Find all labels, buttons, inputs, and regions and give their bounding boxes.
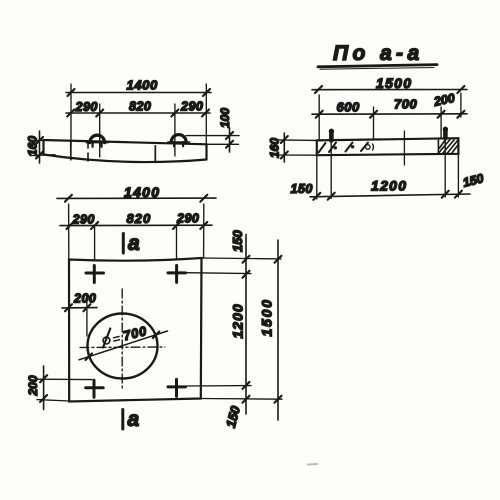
- anchor extension left: [330, 141, 332, 199]
- right leaders plan: [186, 258, 282, 399]
- diameter line tick left: [86, 354, 93, 361]
- lifting loop right: [168, 135, 190, 147]
- dim line 290-820-290 elevation: [66, 110, 210, 117]
- section mark a bottom: [121, 410, 124, 430]
- dim line 150-1200-150 plan: [243, 235, 250, 415]
- svg-text:100: 100: [218, 108, 232, 128]
- slab joint lines elevation: [71, 141, 156, 161]
- svg-text:150: 150: [461, 171, 485, 190]
- dim line 1400 elevation: [66, 89, 211, 96]
- hatch dot 2: [351, 145, 354, 148]
- dim line 1500 plan: [275, 240, 282, 420]
- plate outline plan: [69, 258, 202, 402]
- dim 160 left section: [277, 133, 317, 162]
- svg-text:820: 820: [127, 211, 152, 226]
- svg-text:1200: 1200: [371, 178, 407, 194]
- dim 160 left elevation: [30, 131, 55, 163]
- anchor bar right section: [443, 129, 448, 138]
- svg-text:200: 200: [73, 292, 96, 306]
- svg-text:700: 700: [394, 97, 417, 112]
- section mark a top: [122, 234, 125, 254]
- svg-text:150: 150: [230, 230, 245, 252]
- title underline: [318, 65, 437, 67]
- slab outline elevation: [44, 140, 207, 162]
- anchor bar left section: [329, 131, 334, 141]
- svg-text:200: 200: [26, 375, 40, 396]
- hole circle: [88, 314, 158, 379]
- svg-text:150: 150: [223, 404, 243, 430]
- diameter symbol: [103, 329, 110, 348]
- svg-text:По а-а: По а-а: [333, 42, 424, 65]
- dim line 1400 plan: [57, 195, 216, 202]
- dim line 290-820-290 plan: [60, 222, 212, 229]
- end block hatching: [439, 140, 458, 154]
- svg-text:a: a: [128, 408, 140, 431]
- svg-text:150: 150: [291, 182, 313, 196]
- svg-text:600: 600: [337, 100, 360, 115]
- svg-text:1200: 1200: [230, 303, 246, 338]
- concrete hatch marks in section: [319, 143, 369, 153]
- dim 100 right elevation: [186, 128, 239, 152]
- dim 200 bottom-left: [37, 366, 92, 410]
- diameter line tick right: [153, 332, 160, 339]
- svg-text:1500: 1500: [259, 298, 275, 336]
- cross mark top-left: [86, 266, 104, 283]
- section slab outline: [317, 138, 459, 155]
- slab edge extensions down: [317, 154, 459, 199]
- section end block divider: [437, 139, 439, 154]
- svg-text:290: 290: [176, 212, 199, 226]
- hole vertical centerline: [121, 289, 123, 388]
- svg-text:290: 290: [180, 100, 203, 114]
- dim line 600-700-200 section: [312, 111, 467, 118]
- hatch dot 1: [334, 146, 337, 149]
- faint scan mark bottom: [308, 463, 317, 466]
- hatch paren mark: [373, 144, 374, 150]
- svg-text:200: 200: [432, 91, 456, 109]
- extension lines elevation: [71, 84, 206, 157]
- lifting loop left: [87, 135, 109, 147]
- svg-text:1400: 1400: [124, 184, 160, 200]
- dim line 1500 section: [312, 86, 467, 93]
- svg-text:160: 160: [26, 136, 40, 156]
- svg-text:1400: 1400: [127, 78, 158, 93]
- bottom dim line 150-1200-150 section: [310, 191, 470, 200]
- hatch circle: [366, 145, 371, 150]
- extension lines section top: [319, 93, 461, 140]
- cross mark top-right: [168, 265, 186, 282]
- svg-text:700: 700: [122, 323, 149, 343]
- svg-text:290: 290: [72, 213, 95, 227]
- svg-text:290: 290: [75, 100, 98, 114]
- equals mark: [114, 337, 120, 342]
- hole horizontal centerline: [80, 346, 165, 349]
- cross mark bottom-left: [86, 380, 104, 397]
- cross mark bottom-right: [168, 379, 186, 396]
- svg-text:1500: 1500: [376, 75, 412, 91]
- diameter line: [79, 331, 168, 360]
- svg-text:820: 820: [129, 100, 151, 114]
- svg-text:a: a: [128, 232, 140, 255]
- mid axis mark section: [403, 131, 405, 165]
- dim 200 hole-left: [62, 302, 97, 336]
- anchor extension right: [444, 138, 446, 197]
- svg-text:160: 160: [268, 138, 282, 158]
- extension lines plan top: [69, 204, 204, 260]
